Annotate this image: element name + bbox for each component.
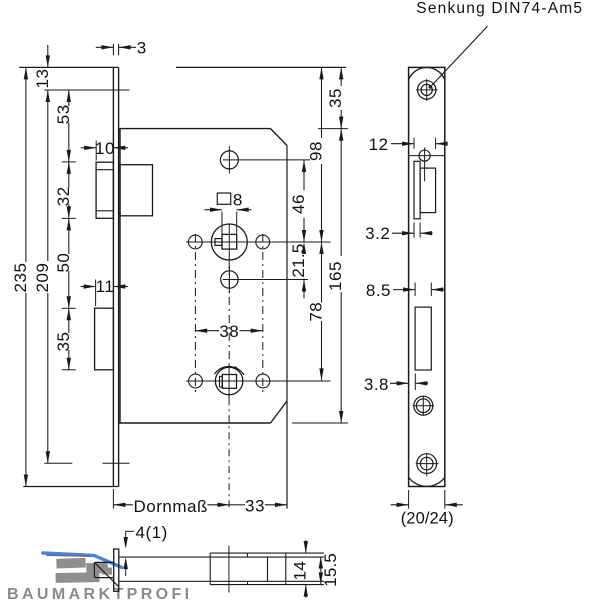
lower follower axis dashed extension to Dornmass line [228, 398, 230, 508]
bottom view faceplate bar [114, 549, 119, 591]
svg-text:10: 10 [95, 139, 115, 158]
bottom view latch outline [94, 562, 113, 577]
dim 3 right segment with arrow [119, 46, 136, 48]
lower follower cam arc [214, 366, 244, 374]
lower follower vertical centerline [228, 363, 230, 398]
svg-text:11: 11 [96, 277, 115, 296]
extension line plate top to right dims [176, 66, 346, 68]
lower fixing hole vertical centerline [228, 266, 230, 293]
lock case top-right chamfer [271, 129, 288, 146]
right dim line C 46/21.5 [303, 160, 305, 190]
dim square-8 left segment and arrow [205, 209, 223, 211]
dim 12 line right with arrow [436, 143, 448, 145]
extension line upper plate screw y=90 [44, 89, 129, 91]
svg-text:4(1): 4(1) [136, 523, 168, 542]
dim 33 line [230, 504, 246, 506]
follower circle [211, 224, 247, 260]
chain tick at deadbolt bottom [62, 369, 76, 371]
dim 8.5 line left with arrow [393, 289, 415, 291]
lower fixing hole circle [221, 271, 238, 288]
right side hole lower circle [256, 374, 270, 388]
chain dim line 53/32/50/35 [68, 90, 70, 106]
logo blue swoosh [43, 553, 122, 567]
lock case bottom edge [119, 422, 271, 424]
svg-text:3.2: 3.2 [365, 224, 390, 243]
chain tick at latch bottom [62, 217, 76, 219]
latch bolt head [96, 162, 113, 218]
logo thin dark underline [47, 554, 91, 557]
dim 8.5 line right with arrow [431, 289, 444, 291]
svg-text:14: 14 [290, 561, 309, 581]
dim 14 arrows outside [305, 540, 307, 553]
follower vertical centerline [228, 223, 230, 261]
dim 3 extension ticks [112, 44, 114, 56]
lower follower tab [220, 376, 223, 387]
svg-text:13: 13 [33, 69, 52, 89]
extension line lower plate screw y=463.3 [44, 462, 72, 464]
deadbolt head [95, 308, 114, 370]
logo gray slab 3 [56, 572, 100, 583]
dim 4(1) upper arrow shaft [125, 531, 127, 537]
svg-text:15.5: 15.5 [321, 553, 340, 587]
dim 3 left segment with arrow [96, 46, 114, 48]
svg-text:21.5: 21.5 [289, 243, 308, 277]
square symbol of label 8 [217, 193, 230, 204]
Senkung leader line [430, 26, 487, 87]
bottom view hub top edge + extension [210, 552, 324, 554]
lock case left edge [119, 129, 121, 423]
logo gray slab 4 [102, 568, 112, 575]
svg-text:12: 12 [369, 135, 389, 154]
dim 3.8 line left with arrow [390, 382, 409, 384]
svg-text:3: 3 [137, 39, 147, 58]
lower follower square hole [222, 375, 236, 389]
lower screw hole B inner [420, 457, 433, 470]
lower screw hole A crosshair [413, 405, 435, 407]
extension line case bottom right [292, 422, 348, 424]
svg-text:53: 53 [54, 104, 73, 124]
chain tick at deadbolt top [62, 307, 76, 309]
dim 3.2 line right with arrow [420, 232, 433, 234]
lock case right edge + extension to Dornmass line [286, 146, 288, 509]
faceplate rounded top arc [409, 67, 445, 79]
top screw crosshair [416, 89, 438, 91]
dim 3.8 extension line [414, 374, 416, 391]
dim 15.5 line with inside arrows [320, 557, 322, 585]
svg-text:BAUMARKTPROFI: BAUMARKTPROFI [7, 586, 193, 600]
svg-text:3.8: 3.8 [364, 375, 389, 394]
follower horizontal centerline through side holes [186, 241, 331, 243]
logo gray slab 1 [56, 558, 86, 569]
latch bolt bevel line lower [96, 210, 113, 212]
faceplate top edge + left extension line [19, 66, 118, 68]
latch slot narrow [414, 161, 420, 219]
lower follower circle [215, 367, 243, 395]
svg-text:165: 165 [326, 261, 345, 291]
dim square-8 right segment and arrow [237, 209, 252, 211]
latch body inside case [120, 165, 153, 216]
bottom view follower axis [228, 546, 230, 593]
dim 20/24 left arrow [391, 504, 409, 506]
right side hole axis dash-dot [262, 234, 264, 393]
lock case bottom-right chamfer [271, 401, 288, 423]
dim 20/24 extension ticks [408, 490, 410, 509]
follower axis dash-dot to lower follower [228, 261, 230, 363]
svg-text:33: 33 [245, 497, 265, 516]
top screw hole inner circle [421, 84, 432, 95]
latch axis vertical line [424, 148, 426, 182]
left side hole axis dash-dot [194, 234, 196, 393]
latch axis circle [419, 150, 430, 161]
follower spring tab [215, 239, 222, 246]
svg-text:235: 235 [11, 263, 30, 293]
lower follower horizontal centerline [186, 380, 331, 382]
right dim line A 98/78 [321, 67, 323, 138]
svg-text:209: 209 [33, 263, 52, 293]
dim 4(1) lower arrow [124, 557, 128, 569]
dim 12 extension ticks [413, 138, 415, 149]
latch slot wide [420, 168, 436, 213]
top screw hole outer circle [418, 81, 436, 99]
logo gray slab 2 [86, 562, 108, 573]
Dornmass arrow left [113, 503, 125, 507]
lower screw hole A outer [414, 396, 433, 415]
cam arc right step tick [235, 367, 238, 370]
faceplate bottom edge + left extension line [23, 486, 118, 488]
svg-text:32: 32 [54, 186, 73, 206]
lower screw hole B crosshair [416, 463, 439, 465]
bottom view case bottom edge + extension [119, 580, 324, 582]
latch axis horizontal line [409, 155, 445, 157]
faceplate outline [409, 67, 445, 486]
svg-text:8.5: 8.5 [366, 281, 391, 300]
upper fixing hole horizontal centerline / extension [223, 159, 310, 161]
svg-text:(20/24): (20/24) [401, 510, 454, 528]
dim 8.5 extension lines [414, 283, 416, 297]
dim 3.2 line left with arrow [392, 232, 414, 234]
lower screw hole B outer [417, 454, 437, 474]
dim 11 extension tick [95, 280, 97, 307]
deadbolt slot [415, 307, 431, 370]
extension faceplate front edge down [112, 489, 114, 509]
dim 3.8 line right with arrow [415, 382, 428, 384]
bottom view hub tick top [247, 553, 249, 557]
bottom view latch bevel diagonal [96, 564, 119, 587]
dim 4(1) leader elbow [126, 530, 134, 532]
Dornmass arrow right at follower axis [208, 504, 230, 506]
Senkung leader dot [429, 85, 433, 89]
upper fixing hole vertical centerline [228, 146, 230, 173]
upper fixing hole circle [220, 151, 238, 169]
svg-text:46: 46 [289, 194, 308, 214]
svg-text:Dornmaß: Dornmaß [134, 497, 208, 516]
dim 12 line left with arrow [391, 143, 414, 145]
latch bolt bevel line upper [96, 169, 113, 171]
dim 13 upper tail and arrow [47, 45, 49, 67]
svg-text:35: 35 [326, 88, 345, 108]
left side hole upper circle [188, 235, 202, 249]
follower square hole [222, 234, 237, 249]
svg-text:38: 38 [219, 322, 239, 341]
bottom view case right edge [285, 553, 287, 585]
svg-text:98: 98 [307, 141, 326, 161]
lower screw hole A inner [416, 399, 430, 413]
extension line case top right [318, 128, 348, 130]
dim 11 right segment and arrow [113, 286, 128, 288]
lower fixing hole horizontal centerline / extension [223, 279, 308, 281]
svg-text:8: 8 [233, 190, 243, 209]
dim 20/24 right arrow [445, 504, 463, 506]
bottom view case top edge + extension [119, 556, 324, 558]
dim 10 left segment and arrow [81, 147, 97, 149]
dim 10 right segment and arrow [113, 147, 128, 149]
bottom view hub left edge [209, 553, 211, 585]
dim 10 extension tick [95, 141, 97, 161]
svg-text:50: 50 [54, 253, 73, 273]
left side hole lower circle [189, 374, 203, 388]
svg-text:78: 78 [307, 302, 326, 322]
bottom view hub tick bottom [247, 581, 249, 584]
svg-text:Senkung DIN74-Am5: Senkung DIN74-Am5 [416, 0, 583, 17]
faceplate rounded bottom arc [409, 477, 445, 486]
right side hole upper circle [256, 235, 270, 249]
bottom view hub bottom edge + extension [210, 584, 324, 586]
faceplate front edge (left) [112, 67, 114, 486]
bottom view inner vertical [267, 557, 269, 581]
chain tick at latch top [62, 161, 76, 163]
svg-text:35: 35 [54, 332, 73, 352]
lock case top edge [119, 128, 271, 130]
dim 235 line [25, 67, 27, 262]
faceplate back edge (right) [118, 67, 120, 486]
dim square-8 extension lines [221, 212, 223, 235]
dim 209 line (shared with 13) [47, 90, 49, 261]
right dim line B 35/165 [340, 67, 342, 86]
dim 11 left segment and arrow [81, 286, 96, 288]
dim 3.2 extension lines [413, 223, 415, 238]
dim 38 line segments [195, 330, 219, 332]
